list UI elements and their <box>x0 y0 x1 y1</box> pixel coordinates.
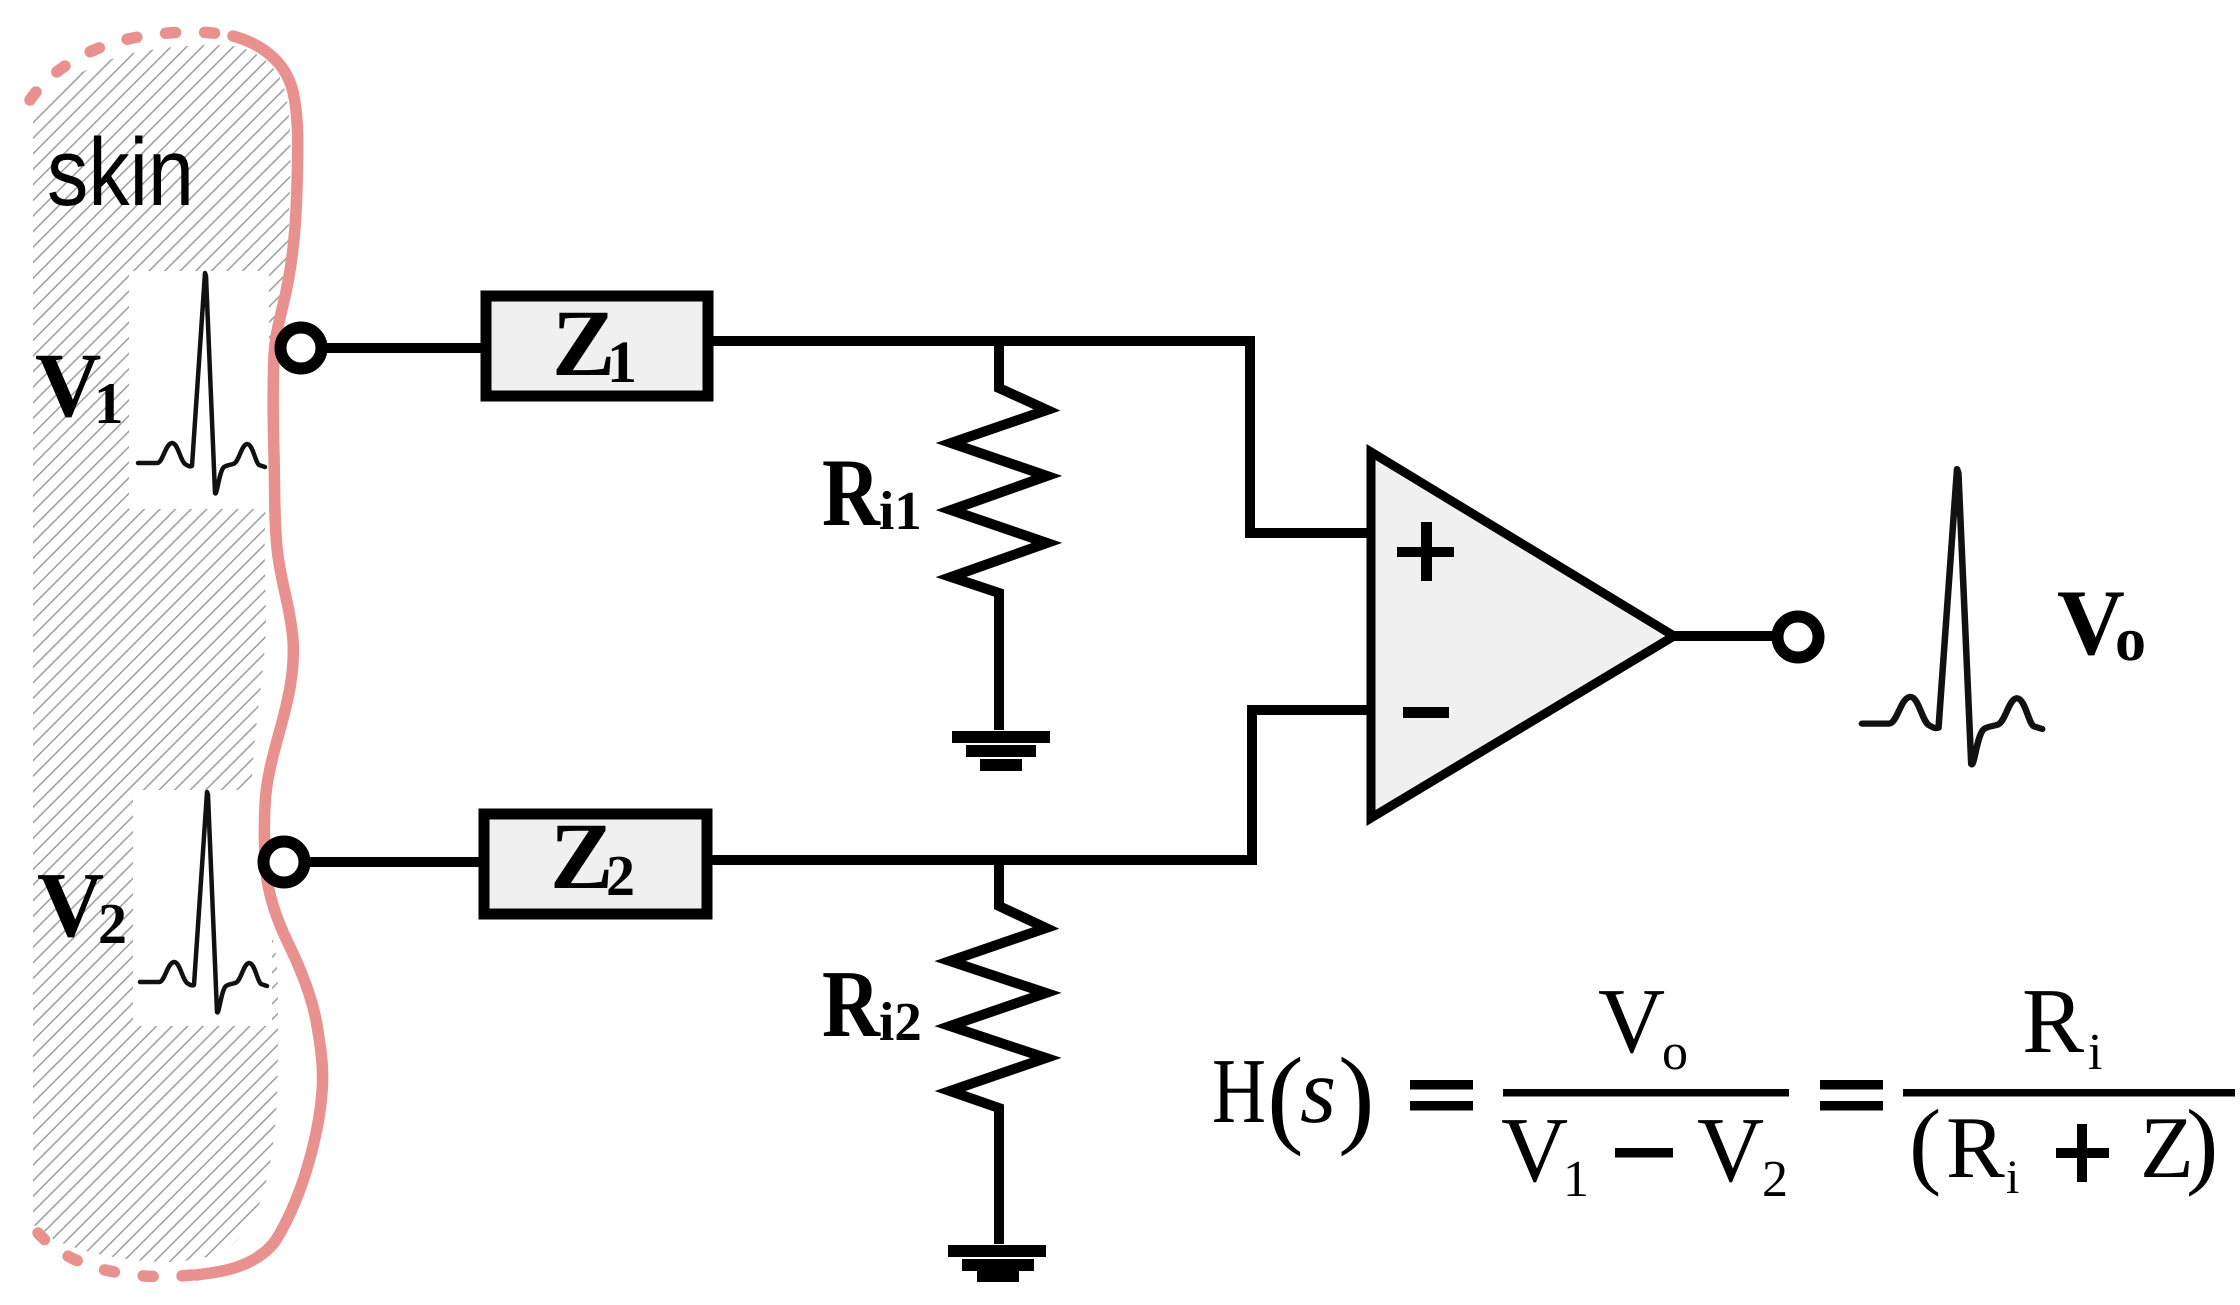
svg-text:R: R <box>822 439 881 546</box>
svg-text:i: i <box>2088 1024 2102 1081</box>
svg-text:): ) <box>1338 1035 1375 1157</box>
svg-text:(: ( <box>1267 1035 1304 1157</box>
svg-text:2: 2 <box>98 891 127 956</box>
svg-text:i2: i2 <box>879 991 922 1052</box>
svg-text:V: V <box>1501 1099 1568 1202</box>
svg-text:): ) <box>2186 1090 2218 1197</box>
svg-text:R: R <box>1946 1100 2005 1197</box>
svg-text:i1: i1 <box>879 480 922 541</box>
svg-text:2: 2 <box>606 843 635 908</box>
svg-text:(: ( <box>1909 1090 1941 1197</box>
svg-text:skin: skin <box>47 119 194 226</box>
svg-text:1: 1 <box>1563 1151 1589 1208</box>
svg-text:s: s <box>1300 1040 1336 1143</box>
svg-text:V: V <box>35 334 101 436</box>
svg-text:R: R <box>822 950 881 1057</box>
svg-text:2: 2 <box>1762 1151 1788 1208</box>
svg-text:Z: Z <box>550 803 613 909</box>
svg-text:V: V <box>1697 1099 1764 1202</box>
svg-text:i: i <box>2006 1151 2019 1204</box>
svg-text:o: o <box>2115 606 2146 674</box>
svg-text:Z: Z <box>552 290 615 396</box>
svg-text:V: V <box>37 854 104 957</box>
svg-text:H: H <box>1212 1040 1266 1143</box>
svg-text:1: 1 <box>94 370 124 436</box>
svg-text:1: 1 <box>607 329 637 395</box>
svg-text:o: o <box>1662 1024 1688 1081</box>
svg-text:V: V <box>1598 970 1665 1073</box>
svg-text:R: R <box>2022 970 2084 1073</box>
